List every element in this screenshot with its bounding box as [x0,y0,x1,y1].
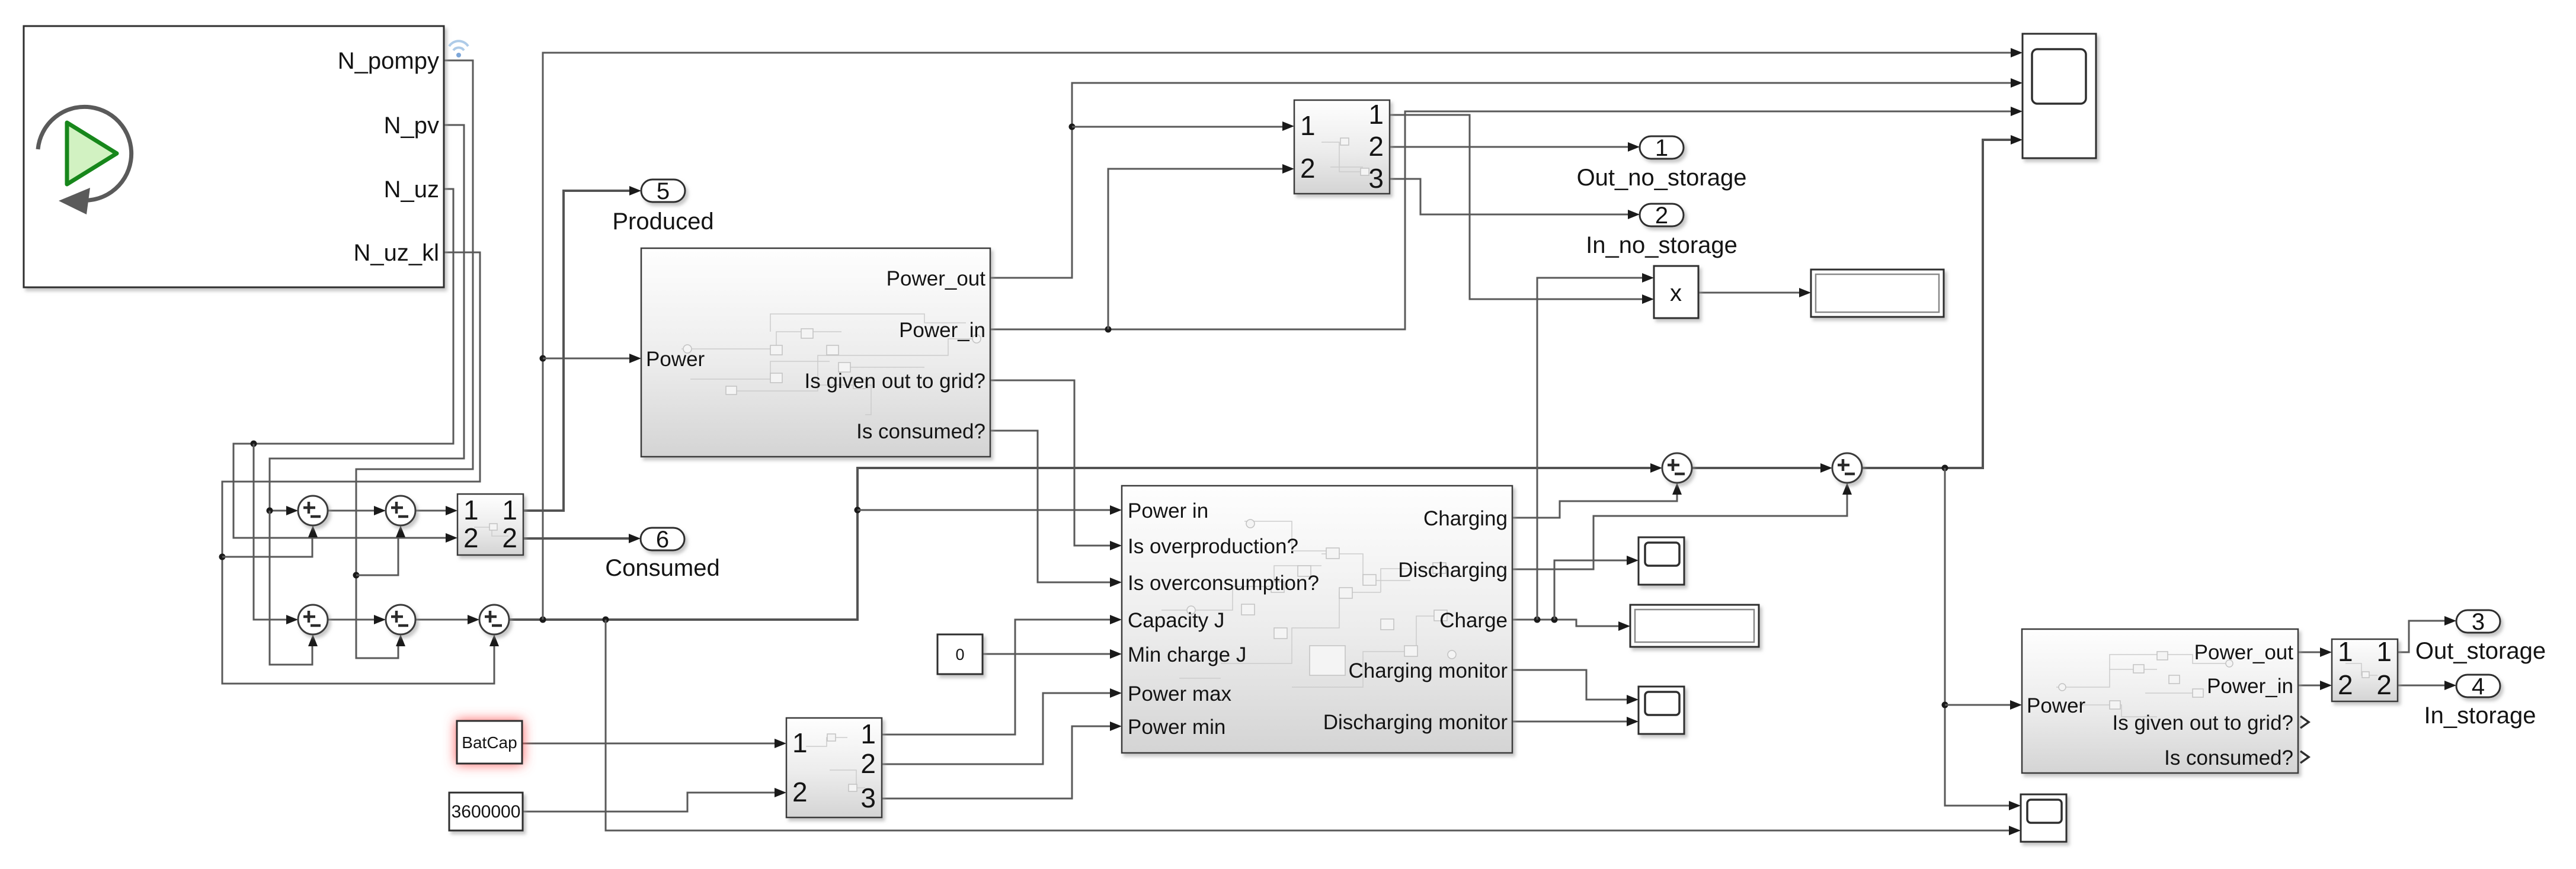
svg-text:2: 2 [1655,203,1668,229]
svg-text:Consumed: Consumed [605,555,719,581]
junction on N_pv wire at T1 input [267,508,273,514]
svg-text:4: 4 [2472,674,2485,700]
svg-text:2: 2 [1300,153,1316,184]
source subsystem block [24,26,444,287]
junction on N_uz wire [251,441,257,447]
svg-text:6: 6 [656,527,669,553]
sum T1 [298,496,328,525]
outport 4 oval [2456,675,2500,697]
wire Power_in to scope line3 [990,107,2023,333]
Power block ghost sketch [681,314,972,415]
svg-text:1: 1 [2338,636,2353,667]
sum B1 [298,605,328,634]
svg-text:N_pv: N_pv [384,113,439,139]
outport 2 oval [1640,204,1684,226]
constant 0 block [937,634,983,674]
storage Power subsystem block [2022,629,2298,773]
svg-text:3: 3 [1368,163,1384,194]
wire storage 2x2 out1 to Out_storage [2398,616,2456,652]
wire 2x3 muxB out1 to Capacity J [882,615,1122,735]
storage Power port labels [2027,641,2293,769]
svg-text:Out_storage: Out_storage [2415,638,2546,664]
wire Charging monitor to scope3 [1512,670,1639,704]
wire B3 output main bus to battery Power in and sum S1 [509,48,2023,835]
svg-text:Discharging: Discharging [1398,559,1508,582]
junction storage Power input [1942,702,1948,708]
wire 2x2 mux out2 to Consumed outport [523,534,641,543]
svg-text:2: 2 [860,748,876,779]
svg-text:Is overproduction?: Is overproduction? [1128,535,1298,558]
wire battery Charging to sum S1 bottom [1512,483,1682,518]
svg-text:1: 1 [860,719,876,749]
svg-text:Charging monitor: Charging monitor [1349,659,1508,682]
Display1 block [1811,270,1944,317]
wire branch to sum B1 left [254,444,290,620]
wire battery Discharging to sum S2 bottom [1512,483,1852,569]
svg-text:1: 1 [1368,99,1384,130]
battery subsystem block [1122,486,1512,753]
main scope block [2023,34,2096,158]
svg-text:0: 0 [955,646,964,663]
svg-text:BatCap: BatCap [462,733,517,752]
scope2 storage [2021,794,2066,842]
svg-text:In_storage: In_storage [2424,703,2536,729]
svg-text:Power_in: Power_in [2207,675,2293,698]
Power subsystem block [641,248,990,457]
svg-text:Power_in: Power_in [899,319,985,342]
wifi logging badge [449,41,468,57]
outport 5 oval [641,179,685,202]
wire product X to Display1 [1698,288,1811,297]
Display2 block [1630,605,1759,647]
svg-text:Produced: Produced [612,209,713,235]
junction to bottom long wire [603,617,609,623]
svg-text:1: 1 [2376,636,2392,667]
svg-text:1: 1 [463,495,479,525]
svg-text:Is overconsumption?: Is overconsumption? [1128,572,1319,595]
2x3 selector block top [1294,100,1390,194]
wire branch to T2 bottom [356,534,398,575]
wire 2x3 mux out2 to Out_no_storage [1390,142,1640,152]
battery ghost sketch [1161,521,1446,687]
wire storage Power_out to storage 2x2 input1 [2298,647,2332,657]
svg-text:Capacity J: Capacity J [1128,609,1224,632]
svg-text:In_no_storage: In_no_storage [1586,232,1737,258]
junction storage branch [1942,465,1948,472]
wire B2 to B3 [415,615,479,624]
svg-text:3: 3 [860,783,876,813]
wire T2 to 2x2 mux input1 [415,506,457,515]
svg-text:2: 2 [792,777,808,807]
BatCap constant with red highlight [457,721,522,764]
wire N_pv from source port 2 down to T1 and B1 bottom [267,125,465,665]
svg-text:Power_out: Power_out [887,267,986,290]
svg-text:Power in: Power in [1128,499,1208,522]
sum S1 [1662,453,1692,483]
svg-text:Is given out to grid?: Is given out to grid? [805,370,985,393]
svg-text:Out_no_storage: Out_no_storage [1577,165,1747,191]
arrowhead into 2x2 mux input2 [446,533,457,543]
sum B3 [479,605,509,634]
wire constant 0 to Min charge J [983,649,1122,659]
green run icon [38,107,132,214]
storage 2x2 selector block [2332,639,2398,701]
svg-text:Power: Power [2027,694,2086,717]
svg-text:5: 5 [657,178,670,204]
svg-text:1: 1 [792,727,808,758]
2x3 selector block bottom [786,718,882,817]
junction Charge to product X [1534,617,1541,623]
outport 3 oval [2456,610,2500,633]
arrowhead into B1 [286,615,298,624]
junction on N_uz_kl wire [219,554,226,560]
scope1 charging [1639,537,1684,585]
wire 3600000 to 2x3 muxB input2 [523,788,786,812]
junction to Power block riser [540,617,546,623]
junction Power_in branch [1105,326,1112,333]
svg-text:2: 2 [502,522,517,553]
Power block port labels [646,267,985,443]
svg-text:1: 1 [1300,110,1316,141]
wire branch to B1 bottom [270,511,312,665]
wire branch to T1 bottom [222,534,312,557]
wire battery Charge to Display2 with branches [1512,273,1654,631]
wire N_uz_kl from source port 4 down to T1 bottom and B3 bottom [219,252,500,684]
2x2 selector block left [457,494,523,555]
svg-text:Charging: Charging [1423,507,1508,530]
svg-text:Discharging monitor: Discharging monitor [1323,711,1508,734]
junction to battery power in [855,507,861,514]
small selector ghost marks [474,142,2377,788]
wire Discharging monitor to scope3 input2 [1512,717,1639,726]
wire Is consumed to Is overconsumption [990,431,1122,587]
svg-text:Charge: Charge [1439,609,1508,632]
svg-text:1: 1 [502,495,517,525]
battery port labels [1128,499,1508,739]
junction Charge to scope1 [1551,617,1558,623]
svg-text:3600000: 3600000 [452,802,521,822]
svg-text:Power max: Power max [1128,682,1232,706]
svg-text:N_pompy: N_pompy [338,48,439,74]
svg-text:Power min: Power min [1128,716,1225,739]
svg-text:2: 2 [2338,669,2353,700]
wire T1 to T2 [328,506,386,515]
outport 1 oval [1640,136,1684,159]
source block port labels [338,48,439,266]
svg-text:Power_out: Power_out [2194,641,2294,664]
scope3 monitors [1639,687,1684,734]
wire Is given out to grid to Is overproduction [990,380,1122,550]
wire B1 to B2 [328,615,386,624]
wire BatCap to 2x3 muxB input1 [522,739,786,748]
wire N_pompy from source port 1 down to T2 bottom and B2 bottom [353,60,473,658]
wire Power_out to 2x3 mux input1 and scope line2 [990,78,2023,278]
svg-text:Is consumed?: Is consumed? [2164,746,2293,769]
svg-text:2: 2 [1368,131,1384,162]
svg-text:N_uz: N_uz [384,177,439,203]
storage Power unconnected output chevrons [2300,716,2309,728]
wire 2x3 mux out1 down to product X input2 [1390,115,1654,304]
wire storage Power_in to storage 2x2 input2 [2298,681,2332,690]
outport 6 oval [641,528,684,550]
wire storage 2x2 out2 to In_storage [2398,681,2456,690]
junction feeding Power block input [540,355,546,362]
svg-text:1: 1 [1655,135,1668,161]
product X block [1654,266,1698,318]
svg-text:Is consumed?: Is consumed? [856,420,985,443]
wire 2x2 mux out1 up to Produced outport [523,186,641,511]
sum T2 [386,496,415,525]
svg-text:2: 2 [2376,669,2392,700]
junction on N_pompy wire [353,572,360,579]
svg-text:Min charge J: Min charge J [1128,643,1246,666]
constant 3600000 block [449,793,523,830]
svg-text:Power: Power [646,348,705,371]
junction Power_out branch [1069,124,1076,130]
sum B2 [386,605,415,634]
wire 2x3 muxB out2 to Power max [882,688,1122,764]
wire 2x3 mux out3 to In_no_storage [1390,179,1640,219]
wire sum S1 to sum S2 [1692,463,1832,473]
wire 2x3 muxB out3 to Power min [882,722,1122,799]
svg-text:Is given out to grid?: Is given out to grid? [2113,711,2293,735]
svg-text:x: x [1670,280,1682,306]
sum S2 [1832,453,1862,483]
storage Power ghost sketch [2056,655,2228,717]
svg-text:3: 3 [2472,609,2485,635]
svg-text:N_uz_kl: N_uz_kl [353,240,439,266]
wire sum S2 to scope input4, storage Power, scope2 [1862,135,2023,810]
wire N_uz from source port 3 down to cluster [233,189,457,624]
